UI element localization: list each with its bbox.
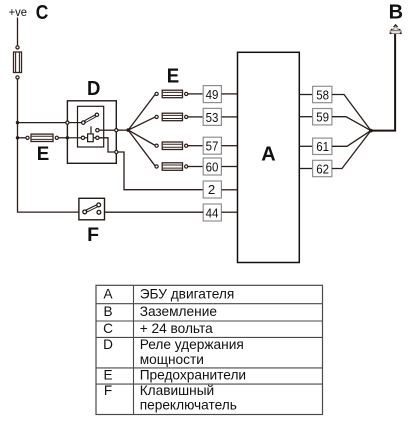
svg-text:E: E	[37, 144, 50, 165]
svg-text:Предохранители: Предохранители	[140, 367, 246, 382]
wire box edge to switch pivot	[69, 122, 82, 124]
svg-text:Клавишный: Клавишный	[140, 383, 215, 398]
svg-text:Заземление: Заземление	[140, 304, 217, 319]
svg-text:59: 59	[316, 110, 329, 125]
wire ECU to pin 59	[299, 116, 313, 118]
relay D switch contact	[82, 113, 99, 124]
svg-text:ЭБУ двигателя: ЭБУ двигателя	[140, 286, 235, 301]
wire pin 44 to ECU	[222, 211, 238, 213]
pin 44	[203, 204, 221, 221]
node ground fan junction	[369, 129, 373, 133]
ECU box A	[238, 52, 300, 262]
svg-text:57: 57	[206, 139, 219, 154]
wire pin 53 to ECU	[222, 116, 238, 118]
svg-text:A: A	[261, 144, 275, 166]
wire +ve supply down to fuse	[17, 18, 19, 46]
svg-text:F: F	[87, 224, 99, 246]
fuse C supply (vertical)	[14, 46, 22, 79]
key switch F contact	[83, 203, 101, 214]
wire relay coil return to pin 2	[118, 152, 203, 190]
pin 2	[203, 181, 221, 198]
pin 60	[203, 158, 221, 175]
wire pin 60 to ECU	[222, 166, 238, 168]
relay D inner box	[78, 106, 104, 147]
legend table	[96, 285, 323, 414]
fuse E 60	[155, 163, 188, 171]
wire switch output to box edge	[99, 129, 115, 131]
svg-text:53: 53	[206, 110, 219, 125]
svg-text:C: C	[103, 321, 113, 336]
svg-text:A: A	[103, 286, 113, 301]
wire pin 59 to ground fan	[332, 117, 371, 131]
ground symbol B	[390, 24, 402, 34]
wire fuse down and right to key switch F	[18, 79, 79, 212]
wire ECU to pin 61	[299, 145, 313, 147]
wire fan to ground symbol	[371, 34, 395, 131]
svg-text:58: 58	[316, 87, 329, 102]
legend row F	[104, 383, 237, 413]
wire ECU to pin 62	[299, 168, 313, 170]
wire relay output to fan node	[118, 129, 128, 131]
wire pin 58 to ground fan	[332, 95, 371, 131]
legend row E	[103, 367, 246, 382]
wire fuse to pin 57	[188, 145, 203, 147]
node relay output pin	[115, 129, 118, 132]
pin 57	[203, 137, 221, 154]
legend row C	[103, 321, 213, 336]
pin 61	[313, 138, 332, 154]
fuse E 57	[155, 142, 188, 150]
node junction to coil fuse	[16, 136, 19, 139]
pin 49	[203, 86, 221, 103]
wire fan to fuse 49	[128, 94, 155, 130]
svg-text:E: E	[167, 65, 179, 87]
svg-text:Реле удержания: Реле удержания	[140, 337, 244, 352]
svg-text:F: F	[104, 383, 112, 398]
svg-text:переключатель: переключатель	[140, 398, 237, 413]
svg-text:E: E	[103, 367, 112, 382]
node relay coil return pin	[115, 150, 118, 153]
fuse E coil feed (horizontal)	[26, 134, 59, 141]
pin 59	[313, 109, 332, 125]
svg-text:B: B	[103, 304, 112, 319]
fuse E 53	[155, 113, 188, 121]
node coil input on relay box edge	[66, 136, 69, 139]
wire fan to fuse 53	[128, 117, 155, 130]
wire pin 62 to ground fan	[332, 131, 371, 169]
wire fuse to relay coil input	[58, 137, 67, 139]
node fan-out junction	[126, 128, 130, 132]
wire key switch to pin 44	[105, 211, 204, 213]
wire pin 57 to ECU	[222, 145, 238, 147]
relay D coil	[67, 126, 99, 141]
svg-text:D: D	[87, 78, 100, 100]
svg-text:+ 24 вольта: + 24 вольта	[140, 321, 213, 336]
fuse E 49	[155, 90, 188, 98]
pin 58	[313, 86, 332, 102]
key switch F box	[79, 198, 105, 220]
pin 62	[313, 160, 332, 176]
wire junction to fuse E	[18, 137, 26, 139]
svg-text:61: 61	[316, 139, 329, 154]
wire fuse to pin 60	[188, 166, 203, 168]
relay D switch output contact	[96, 129, 99, 132]
legend row D	[103, 337, 244, 367]
wire pin 2 to ECU	[222, 189, 238, 191]
svg-text:44: 44	[206, 205, 219, 220]
wire fan to fuse 60	[128, 130, 155, 166]
wire pin 49 to ECU	[222, 93, 238, 95]
svg-text:мощности: мощности	[140, 352, 204, 367]
node relay pin switch input	[66, 121, 69, 124]
wire coil output to relay box edge	[99, 138, 115, 152]
svg-text:60: 60	[206, 159, 219, 174]
svg-text:49: 49	[206, 87, 219, 102]
wire fuse to pin 49	[188, 93, 203, 95]
svg-text:D: D	[103, 337, 113, 352]
svg-text:62: 62	[316, 161, 329, 176]
wire fuse to pin 53	[188, 116, 203, 118]
wire pin 61 to ground fan	[332, 131, 371, 147]
svg-text:C: C	[36, 2, 49, 24]
legend row A	[103, 286, 234, 301]
legend row B	[103, 304, 217, 319]
wire junction to relay D switch contact	[18, 122, 67, 124]
pin 53	[203, 108, 221, 125]
svg-text:+ve: +ve	[9, 5, 28, 19]
svg-text:2: 2	[208, 182, 215, 197]
relay D outer box	[67, 101, 116, 164]
node junction to relay switch	[16, 121, 19, 124]
wire fan to fuse 57	[128, 130, 155, 145]
svg-text:B: B	[389, 1, 403, 23]
wire ECU to pin 58	[299, 94, 313, 96]
